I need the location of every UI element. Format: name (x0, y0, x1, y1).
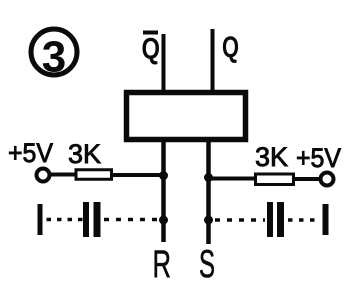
junction: R line / S1 (159, 216, 168, 225)
svg-text:3K: 3K (255, 142, 288, 172)
wire: Q output (top right vertical) (211, 29, 215, 92)
pushbutton S2: mechanical link (dashed) (288, 218, 319, 222)
wire: pushbutton S1 to node R (dashed) (104, 218, 161, 222)
svg-text:3K: 3K (68, 139, 101, 169)
circled figure number 3 (31, 29, 77, 82)
svg-text:+5V: +5V (296, 143, 341, 173)
pushbutton S1: mechanical link (dashed) (47, 218, 84, 222)
svg-text:+5V: +5V (8, 138, 53, 168)
resistor R1 3K (left) (76, 170, 112, 180)
pushbutton S1: contact plates (86, 202, 97, 237)
wire: resistor R1 to node R (112, 173, 163, 177)
svg-text:S: S (199, 243, 215, 286)
wire: Q-bar output (top left vertical) (162, 34, 166, 92)
svg-text:Q: Q (222, 31, 239, 64)
wire: node S to pushbutton S2 (dashed) (215, 218, 265, 222)
junction: S line / S2 (204, 216, 213, 225)
junction: node R pull-up (159, 171, 168, 180)
resistor R2 3K (right) (256, 174, 294, 185)
latch U1 (RS flip-flop box) (127, 93, 246, 140)
terminal: +5V right (open circle) (321, 173, 334, 186)
junction: node S pull-up (204, 173, 213, 182)
pushbutton S2: contact plates (270, 202, 281, 237)
wire: S input (bottom right vertical) (206, 140, 211, 244)
wire: node S to resistor R2 (208, 177, 256, 181)
wire: R input (bottom left vertical) (161, 140, 166, 242)
pushbutton S1: actuator bar (left) (38, 204, 43, 235)
svg-text:R: R (153, 243, 172, 286)
terminal: +5V left (open circle) (37, 169, 50, 182)
svg-text:3: 3 (42, 33, 66, 82)
svg-text:Q: Q (142, 33, 161, 66)
wire: resistor R2 to right terminal (294, 177, 320, 181)
wire: left terminal to resistor R1 (50, 173, 76, 177)
pushbutton S2: actuator bar (right) (323, 204, 329, 235)
label Q-bar (142, 33, 161, 66)
